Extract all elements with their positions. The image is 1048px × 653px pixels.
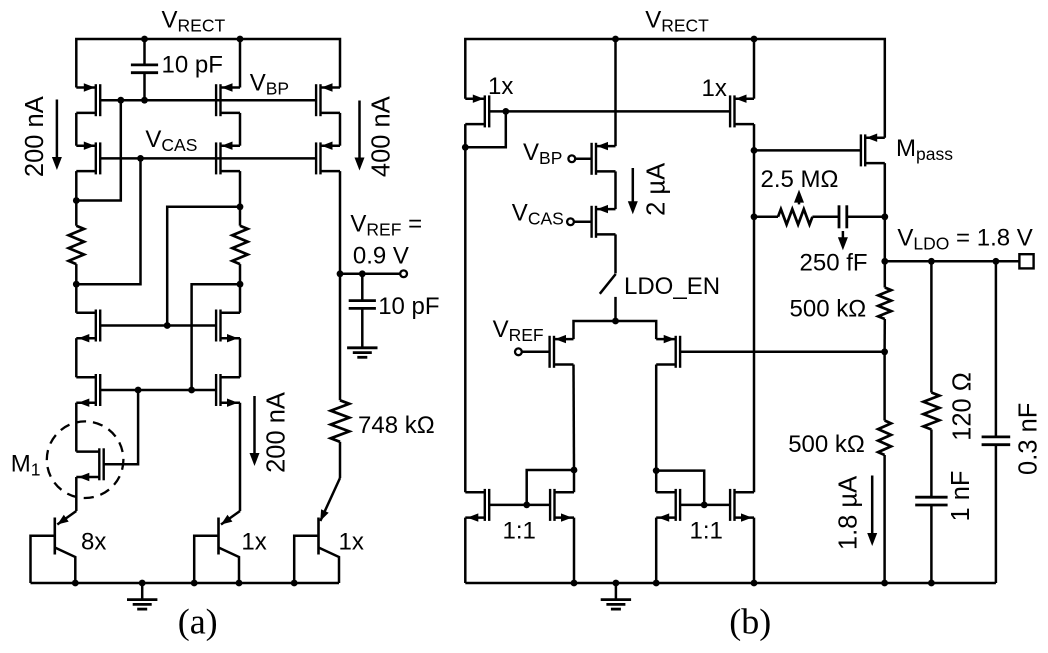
- transistor Q3 pnp 1x: [317, 518, 320, 555]
- junction rail / Q2 base: [191, 580, 198, 587]
- junction rail / Q2 collector: [236, 580, 243, 587]
- junction on rail middle branch (a): [237, 36, 244, 43]
- svg-text:VCAS: VCAS: [145, 126, 197, 155]
- resistor R1 (left branch): [75, 201, 78, 226]
- wire VBP gate row (a): [100, 99, 316, 102]
- wire ground rail (a): [31, 582, 340, 585]
- svg-text:250 fF: 250 fF: [800, 250, 868, 277]
- value label 0.3 nF: [1015, 403, 1043, 475]
- wire VLDO row: [885, 260, 1020, 263]
- resistor R6 500 kOhm (lower divider): [883, 352, 886, 421]
- svg-text:120 Ω: 120 Ω: [949, 372, 977, 441]
- junction row2 gate / M1 gate: [135, 387, 142, 394]
- capacitor C2 10 pF (VREF): [361, 274, 364, 301]
- svg-text:(a): (a): [178, 602, 218, 642]
- terminal VCAS input (b): [567, 218, 574, 225]
- wire M1 gate to row2 gates: [104, 390, 138, 464]
- wire D1 drain down: [572, 365, 575, 471]
- wire P1 diode link gate-drain: [465, 111, 506, 147]
- label 200 nA (middle branch): [263, 392, 291, 473]
- wire VBP terminal to P3 gate: [575, 158, 591, 161]
- wire ground rail (b): [465, 582, 996, 585]
- switch LDO_EN blade: [600, 274, 616, 294]
- svg-text:1:1: 1:1: [503, 518, 536, 545]
- capacitor C4 1 nF: [930, 430, 933, 498]
- junction left mirror gate node: [523, 502, 530, 509]
- wire P2 drain / output column: [753, 124, 756, 492]
- svg-text:VRECT: VRECT: [162, 6, 226, 35]
- wire M6 drain to node A': [239, 171, 242, 207]
- svg-text:M1: M1: [11, 451, 41, 480]
- node A junction (left branch): [73, 197, 80, 204]
- resistor R3 748 kOhm: [339, 274, 342, 401]
- transistor Mpass pmos: [864, 134, 866, 166]
- svg-text:(b): (b): [729, 602, 771, 642]
- wire V_RECT rail (a): [76, 39, 340, 88]
- wire rail to P3 source: [614, 39, 617, 146]
- terminal VBP input (b): [568, 155, 575, 162]
- wire P4 drain to switch: [614, 234, 617, 273]
- junction Mpass drain / RC: [881, 213, 888, 220]
- transistor M12 nmos mirror (left pair, left): [484, 489, 486, 521]
- wire VREF node to terminal: [340, 273, 400, 276]
- ground symbol (C2): [347, 346, 377, 349]
- wire M12 source to rail: [464, 518, 467, 583]
- svg-text:1x: 1x: [702, 75, 727, 102]
- junction gate row / diode link (b): [502, 108, 509, 115]
- wire M14 drain up: [655, 471, 658, 493]
- value label 1 nF: [947, 470, 975, 521]
- current arrow 200 nA (left branch): [56, 100, 59, 160]
- junction diff pair tail: [612, 318, 619, 325]
- wire M3 drain to cascode M6: [239, 113, 242, 146]
- arrow to 2.5 MOhm label: [798, 201, 801, 205]
- wire left rail down to mirror (b): [464, 147, 467, 492]
- svg-text:VREF =: VREF =: [350, 211, 422, 240]
- junction rail / center column (b): [612, 36, 619, 43]
- svg-text:1x: 1x: [339, 529, 364, 556]
- junction P1 drain/gate node: [462, 144, 469, 151]
- junction rail / P2 source (b): [751, 36, 758, 43]
- transistor M13 nmos mirror (left pair, right): [553, 489, 555, 521]
- svg-text:VRECT: VRECT: [645, 6, 709, 35]
- transistor M14 nmos mirror (right pair, left): [675, 489, 677, 521]
- junction VLDO row / 0.3 nF branch: [993, 258, 1000, 265]
- transistor M9 nmos cascode right: [219, 310, 221, 342]
- svg-text:0.9 V: 0.9 V: [353, 242, 409, 269]
- junction VBP row / C1: [141, 97, 148, 104]
- transistor M2 pmos mirror left: [95, 84, 97, 116]
- wire D2 drain down: [655, 365, 658, 471]
- svg-text:500 kΩ: 500 kΩ: [788, 431, 865, 458]
- wire M2 drain to cascode M5: [75, 113, 78, 146]
- current arrow 400 nA (right branch): [358, 101, 361, 160]
- capacitor C5 0.3 nF: [995, 261, 998, 437]
- junction rail / ground: [139, 580, 146, 587]
- resistor R5 500 kOhm (upper divider): [884, 261, 887, 287]
- transistor P2 pmos 1x (right): [733, 95, 735, 127]
- wire node B to M8 drain: [75, 284, 78, 313]
- wire nmos row1 gate line: [100, 324, 216, 327]
- transistor M4 pmos mirror right: [319, 84, 321, 116]
- junction rail / Q3 base: [291, 580, 298, 587]
- svg-text:Mpass: Mpass: [896, 135, 953, 164]
- wire M1 source to Q1 emitter: [75, 477, 78, 511]
- wire P1 drain down: [464, 124, 467, 147]
- wire node B' to nmos row2 gates: [192, 284, 240, 390]
- wire M13 source to rail: [573, 518, 576, 583]
- label 2 uA: [643, 163, 671, 216]
- dashed circle around M1: [47, 421, 124, 498]
- svg-text:1x: 1x: [488, 73, 513, 100]
- wire P2 source from rail: [753, 39, 756, 99]
- resistor R2 (middle branch): [239, 207, 242, 226]
- wire VCAS gate row (a): [100, 157, 316, 160]
- junction feedback node: [881, 348, 888, 355]
- svg-text:VBP: VBP: [523, 139, 562, 168]
- junction output column / compensation RC: [751, 213, 758, 220]
- svg-text:10 pF: 10 pF: [378, 293, 439, 320]
- transistor M3 pmos mirror middle: [219, 84, 221, 116]
- junction VLDO row / 120 Ohm branch: [928, 258, 935, 265]
- svg-text:8x: 8x: [81, 529, 106, 556]
- wire VCAS row to node B: [76, 158, 140, 284]
- junction VREF node / C2: [359, 270, 366, 277]
- transistor M15 nmos mirror (right pair, right): [733, 489, 735, 521]
- svg-text:500 kΩ: 500 kΩ: [790, 296, 867, 323]
- wire M4 drain to cascode M7: [339, 113, 342, 146]
- transistor M6 pmos cascode middle: [219, 142, 221, 174]
- junction rail / ground (b): [613, 580, 620, 587]
- svg-text:2 µA: 2 µA: [643, 163, 671, 216]
- wire Mpass gate line: [754, 149, 861, 152]
- ground symbol (a): [141, 583, 144, 600]
- wire left mirror gate row: [489, 504, 550, 507]
- wire right mirror diode link: [656, 471, 704, 505]
- node A' junction (middle branch): [237, 203, 244, 210]
- wire node A' to nmos row1 gates: [167, 207, 240, 326]
- node VREF junction: [337, 270, 344, 277]
- transistor M11 nmos right: [219, 374, 221, 406]
- svg-text:400 nA: 400 nA: [367, 96, 395, 177]
- wire M15 source to rail: [753, 518, 756, 583]
- junction row1 gate node: [164, 322, 171, 329]
- junction D2 drain / mirror diode: [653, 467, 660, 474]
- node B' junction (middle branch): [237, 281, 244, 288]
- wire M10 source to M1 drain: [75, 403, 78, 452]
- junction VBP row / diode link: [117, 97, 124, 104]
- wire M9 source to M11 drain: [239, 338, 242, 377]
- svg-text:LDO_EN: LDO_EN: [624, 273, 720, 300]
- wire D2 gate feedback line: [680, 351, 885, 354]
- value label 120 Ohm: [949, 372, 977, 441]
- capacitor C1 10 pF (VBP decoupling): [143, 39, 146, 65]
- junction rail / Q1 collector: [72, 580, 79, 587]
- wire P3 drain to P4 source: [614, 171, 617, 209]
- transistor M7 pmos cascode right: [319, 142, 321, 174]
- junction right mirror gate node: [701, 502, 708, 509]
- wire M14 source to rail: [655, 518, 658, 583]
- junction D1 drain / mirror diode: [571, 467, 578, 474]
- wire node B' to M9 drain: [239, 284, 242, 313]
- transistor D2 pmos diff input right: [675, 336, 677, 368]
- svg-text:VLDO = 1.8 V: VLDO = 1.8 V: [897, 225, 1032, 254]
- label 1.8 uA: [834, 476, 862, 550]
- junction rail / 1 nF branch: [928, 580, 935, 587]
- junction rail / M13 source: [571, 580, 578, 587]
- arrow to 250 fF label: [842, 231, 845, 239]
- wire node A to VBP row (diode link): [76, 100, 121, 200]
- wire right mirror gate row: [680, 504, 730, 507]
- wire switch to tail node: [614, 297, 617, 321]
- transistor P4 pmos cascode (VCAS): [595, 206, 597, 238]
- wire pmos mirror gate row (b): [489, 110, 730, 113]
- transistor M1 nmos (circled): [98, 448, 100, 480]
- transistor P1 pmos 1x (left): [484, 95, 486, 127]
- junction rail / divider: [881, 580, 888, 587]
- resistor R7 120 Ohm: [930, 261, 933, 392]
- junction row2 gate / node B' link: [188, 387, 195, 394]
- transistor M10 nmos left: [95, 374, 97, 406]
- terminal VLDO (open square): [1019, 254, 1033, 268]
- label 400 nA (right branch): [367, 96, 395, 177]
- svg-text:2.5 MΩ: 2.5 MΩ: [761, 166, 839, 193]
- wire M7 drain to VREF node: [339, 171, 342, 274]
- junction VLDO node / Mpass drain: [881, 258, 888, 265]
- wire M8 source to M10 drain: [75, 338, 78, 377]
- svg-text:10 pF: 10 pF: [162, 52, 223, 79]
- terminal VREF input (b): [515, 348, 522, 355]
- label 200 nA (left branch): [21, 96, 49, 177]
- transistor M5 pmos cascode left: [95, 142, 97, 174]
- wire V_RECT rail (b): [465, 39, 885, 138]
- current arrow 1.8 uA: [871, 476, 874, 536]
- transistor M8 nmos cascode left: [95, 310, 97, 342]
- wire M13 drain up: [573, 470, 576, 492]
- wire M5 drain to node A: [75, 171, 78, 200]
- svg-text:VREF: VREF: [493, 316, 544, 345]
- svg-text:200 nA: 200 nA: [21, 96, 49, 177]
- wire VCAS terminal to P4 gate: [574, 221, 592, 224]
- svg-text:0.3 nF: 0.3 nF: [1015, 403, 1043, 475]
- current arrow 200 nA (middle branch): [253, 396, 256, 455]
- junction output column / Mpass gate: [751, 147, 758, 154]
- transistor D1 pmos diff input left: [553, 336, 555, 368]
- svg-text:1 nF: 1 nF: [947, 470, 975, 521]
- svg-text:VCAS: VCAS: [512, 200, 564, 229]
- ground symbol (b): [615, 583, 618, 600]
- resistor R4 2.5 MOhm (compensation): [754, 216, 778, 219]
- junction rail / M14 source: [653, 580, 660, 587]
- svg-text:748 kΩ: 748 kΩ: [358, 412, 435, 439]
- current arrow 2 uA: [632, 168, 635, 203]
- capacitor C3 250 fF (compensation): [838, 205, 841, 228]
- terminal VREF (open circle): [400, 270, 407, 277]
- wire Mpass drain down to VLDO: [884, 163, 887, 261]
- wire nmos row2 gate line: [100, 389, 216, 392]
- transistor Q2 pnp 1x: [194, 511, 240, 583]
- svg-text:1x: 1x: [241, 529, 266, 556]
- svg-text:200 nA: 200 nA: [263, 392, 291, 473]
- wire M11 source to Q2 emitter: [239, 403, 242, 511]
- wire R3 to Q3 emitter (diagonal): [320, 478, 340, 521]
- svg-text:1.8 µA: 1.8 µA: [834, 476, 862, 550]
- svg-text:1:1: 1:1: [690, 518, 723, 545]
- wire diff pair tail bar: [574, 321, 657, 339]
- node B junction (left branch): [73, 281, 80, 288]
- junction on rail at 10pF (a): [141, 36, 148, 43]
- wire left mirror diode link: [527, 470, 574, 505]
- junction VCAS row drop: [137, 155, 144, 162]
- svg-text:VBP: VBP: [250, 70, 289, 99]
- transistor P3 pmos bias (VBP): [595, 143, 597, 175]
- transistor Q1 pnp 8x: [31, 511, 77, 583]
- wire rail to middle mirror source: [239, 39, 242, 88]
- wire VREF terminal to D1 gate: [522, 351, 550, 354]
- junction rail / M15 source: [751, 580, 758, 587]
